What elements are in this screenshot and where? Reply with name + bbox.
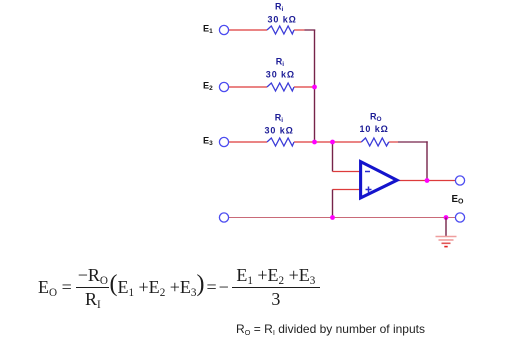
junction noninverting-rail (330, 215, 335, 220)
wire vertical bus node A (314, 30, 316, 143)
wire summing node down to inverting input (332, 142, 334, 172)
terminal common bottom left (219, 213, 228, 222)
wire E3 input segment (229, 141, 267, 143)
junction output node (425, 178, 430, 183)
terminal E3 (219, 137, 228, 146)
terminal output Eo (455, 176, 464, 185)
terminal E2 (219, 82, 228, 91)
svg-text:30 kΩ: 30 kΩ (266, 70, 295, 80)
wire Ro to feedback corner (389, 141, 398, 143)
resistor R3 Ri 30k (267, 138, 294, 146)
junction bus-E2 (312, 85, 317, 90)
wire summing node to Ro (333, 141, 362, 143)
junction ground-rail (444, 215, 449, 220)
svg-text:30 kΩ: 30 kΩ (268, 15, 297, 25)
equation Eo = -Ro/Ri (E1+E2+E3) = -(E1+E2+E3)/3 (38, 265, 320, 310)
wire op-amp output (399, 180, 456, 182)
svg-text:Ri: Ri (275, 112, 284, 124)
svg-text:RO: RO (370, 111, 382, 123)
svg-text:EO: EO (452, 194, 465, 206)
caption Ro = Ri divided by number of inputs (236, 322, 425, 336)
resistor R2 Ri 30k (267, 83, 294, 91)
svg-text:10 kΩ: 10 kΩ (360, 124, 389, 134)
junction bus-E3 (312, 140, 317, 145)
wire to op-amp noninverting input (333, 189, 360, 191)
terminal E1 (219, 25, 228, 34)
resistor Ro 10k feedback (361, 138, 389, 146)
wire E1 input segment (229, 29, 267, 31)
wire E2 input segment (229, 86, 267, 88)
terminal common bottom right (455, 213, 464, 222)
svg-text:Ri: Ri (275, 1, 284, 13)
svg-text:E3: E3 (203, 136, 213, 148)
op-amp U1 minus pin label (365, 171, 370, 173)
wire to op-amp inverting input (333, 171, 360, 173)
resistor R1 Ri 30k (267, 26, 294, 34)
svg-text:E2: E2 (203, 81, 213, 93)
op-amp U1 plus pin label (366, 187, 372, 193)
wire R3 to summing node (294, 141, 333, 143)
wire feedback vertical to output (426, 141, 428, 180)
svg-text:Ri: Ri (276, 56, 285, 68)
wire R1 to bus corner (294, 29, 305, 31)
wire noninverting down to ground rail (332, 190, 334, 218)
op-amp U1 (361, 162, 397, 198)
ground (436, 218, 457, 247)
wire R2 to bus (294, 86, 315, 88)
junction summing node (330, 140, 335, 145)
svg-text:E1: E1 (203, 24, 213, 36)
wire bottom ground rail (229, 217, 455, 219)
svg-text:30 kΩ: 30 kΩ (265, 126, 294, 136)
